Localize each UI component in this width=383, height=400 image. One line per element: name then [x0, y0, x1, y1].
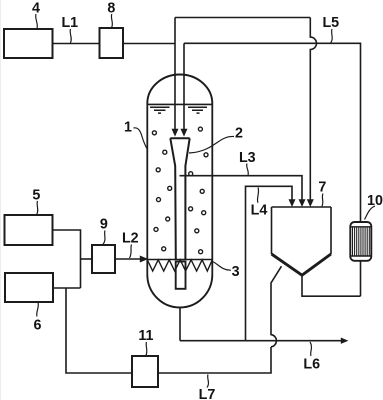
draft tube funnel 2 [170, 138, 189, 259]
condenser 10 body [350, 222, 371, 261]
svg-text:9: 9 [100, 217, 108, 233]
svg-text:L4: L4 [251, 202, 268, 218]
wire L2 from box 9 to vessel [115, 258, 141, 260]
leader L7 [207, 375, 208, 388]
box 9 [92, 245, 115, 273]
box 11 [132, 356, 158, 387]
leader 4 [36, 14, 38, 29]
arrow into hopper from vapor line [307, 199, 314, 207]
box 5 [5, 215, 53, 245]
hopper riser hop over L6 and tap into hopper cone [271, 266, 282, 347]
level dashes left [150, 107, 170, 113]
draft tube bottom stub [176, 262, 186, 289]
svg-text:7: 7 [318, 179, 326, 195]
svg-text:L5: L5 [322, 15, 339, 31]
svg-text:5: 5 [32, 187, 40, 203]
leader L3 [247, 164, 249, 176]
leader 6 [37, 303, 39, 317]
wire pipe 1 vertical into vessel [174, 18, 176, 130]
leader 9 [103, 231, 105, 245]
hopper 7 cone [272, 254, 332, 275]
svg-text:L6: L6 [303, 356, 320, 372]
leader L1 [70, 29, 71, 43]
condenser hatch [353, 227, 370, 256]
svg-text:8: 8 [107, 1, 115, 17]
level dashes right [188, 107, 207, 113]
leader 5 [37, 201, 38, 215]
wire pipe 2 vertical into vessel [183, 43, 185, 129]
wire L6 slurry line [180, 340, 341, 342]
condenser cap lines [350, 227, 371, 256]
box 4 [4, 29, 53, 58]
box 6 [5, 273, 53, 302]
wire junction to box 9 [81, 258, 93, 260]
arrow L4 into hopper [289, 199, 296, 207]
leader 1 [134, 128, 148, 150]
wire box5 to junction [53, 230, 81, 288]
wire top horizontal from pipe1 to hopper riser [175, 17, 310, 19]
vessel bottom cap [147, 275, 212, 308]
wire L4 from slurry line up to hopper [246, 186, 293, 340]
reactor vessel 1 shell [147, 104, 212, 275]
bubbles [152, 127, 208, 254]
leader L2 [130, 245, 132, 259]
leader L5 [331, 29, 332, 43]
distributor zigzag 3 [147, 260, 212, 271]
leader 10 [365, 206, 376, 220]
svg-text:L1: L1 [61, 15, 78, 31]
condenser outlet [360, 261, 362, 296]
leader 8 [111, 14, 112, 28]
svg-text:10: 10 [367, 193, 383, 209]
arrow L3 into hopper [299, 199, 306, 207]
leader 2 [189, 136, 234, 153]
svg-text:6: 6 [34, 318, 42, 334]
svg-text:L2: L2 [122, 231, 139, 247]
distributor plate 3 top line [147, 259, 212, 261]
arrow pipe 1 [172, 129, 179, 137]
wire L1 box4 to pipe1 [53, 43, 176, 45]
leader 3 [213, 262, 232, 271]
hopper outlet to condenser outlet [302, 275, 361, 296]
arrow pipe 2 [181, 129, 188, 137]
liquid level line [147, 103, 212, 105]
vessel bottom outlet [179, 308, 181, 341]
box 8 [100, 28, 124, 58]
leader 7 [322, 194, 323, 207]
wire vapor line to hopper with hop over L5 [310, 18, 316, 201]
svg-text:11: 11 [138, 328, 153, 344]
vessel dome top [147, 75, 212, 104]
svg-text:L7: L7 [199, 387, 216, 400]
wire box6 to junction [53, 287, 81, 289]
wire L3 from draft tube to hopper [180, 176, 303, 200]
svg-text:3: 3 [232, 264, 240, 280]
arrow L2 [140, 256, 148, 263]
svg-text:4: 4 [32, 1, 40, 17]
svg-text:L3: L3 [239, 150, 256, 166]
leader L6 [310, 342, 311, 356]
arrow L6 [341, 338, 349, 344]
hopper 7 body [272, 207, 332, 254]
svg-text:2: 2 [235, 126, 243, 142]
leader L4 [257, 188, 258, 203]
wire L5 horizontal to condenser [184, 43, 361, 222]
wire down from box6 line to L7 [66, 288, 132, 373]
leader 11 [146, 342, 147, 356]
wire L7 from box 11 to hopper riser [158, 347, 271, 373]
svg-text:1: 1 [124, 120, 132, 136]
